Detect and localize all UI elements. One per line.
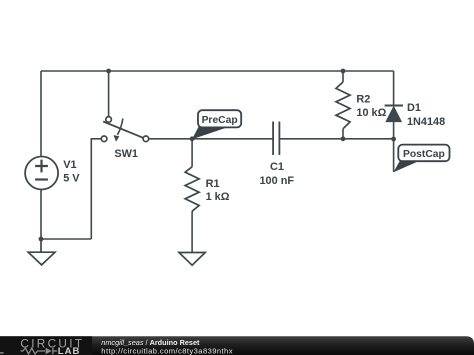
svg-text:V1: V1 [63, 159, 76, 171]
logo play arrow [46, 348, 52, 355]
junction node PreCap / R1 [190, 136, 195, 141]
junction top rail / R2 [341, 69, 346, 74]
wire switch top lead [108, 71, 110, 117]
junction V1 / bottom rail / ground [39, 237, 44, 242]
wire top rail [41, 70, 394, 72]
svg-text:PostCap: PostCap [403, 149, 445, 160]
svg-text:LAB: LAB [58, 346, 81, 355]
svg-text:1N4148: 1N4148 [407, 116, 445, 128]
junction top rail / switch [106, 69, 111, 74]
wire R2 top lead [342, 71, 344, 82]
ground (left, below V1) [28, 239, 55, 265]
footer brand bar [0, 336, 474, 355]
svg-text:10 kΩ: 10 kΩ [356, 107, 386, 119]
junction diode bottom / PostCap tap [391, 137, 396, 142]
wire R2 bottom lead [342, 129, 344, 139]
svg-text:1 kΩ: 1 kΩ [206, 191, 230, 203]
capacitor C1 [273, 122, 279, 156]
voltage source V1 [25, 157, 58, 190]
node flag PreCap [192, 110, 241, 139]
wire mid rail switch to capacitor [149, 138, 273, 140]
wire riser to switch left terminal [91, 139, 101, 239]
wire diode bottom lead to PostCap tap [393, 122, 395, 172]
resistor R2 [336, 82, 350, 129]
svg-text:http://circuitlab.com/c8ty3a83: http://circuitlab.com/c8ty3a839nthx [101, 347, 233, 355]
node flag PostCap [393, 145, 449, 173]
svg-text:PreCap: PreCap [202, 115, 238, 126]
wire V1 bottom lead [40, 190, 42, 239]
svg-text:5 V: 5 V [63, 173, 80, 185]
svg-text:C1: C1 [270, 161, 284, 173]
wire R1 bottom lead [191, 211, 193, 252]
wire capacitor to diode rail [280, 138, 394, 140]
svg-text:100 nF: 100 nF [260, 175, 295, 187]
resistor R1 [185, 167, 199, 211]
svg-text:R2: R2 [356, 94, 370, 106]
switch SW1 [101, 117, 148, 142]
ground (below R1) [179, 253, 205, 266]
svg-text:SW1: SW1 [114, 148, 138, 160]
svg-text:R1: R1 [206, 178, 220, 190]
svg-text:D1: D1 [407, 102, 421, 114]
junction R2 bottom / rail [341, 136, 346, 141]
wire R1 top lead [191, 139, 193, 167]
diode D1 [385, 106, 403, 122]
wire bottom-left rail [41, 238, 91, 240]
wire diode top lead [393, 71, 395, 106]
logo waveform [21, 348, 58, 354]
wire left drop to V1 [40, 71, 42, 157]
